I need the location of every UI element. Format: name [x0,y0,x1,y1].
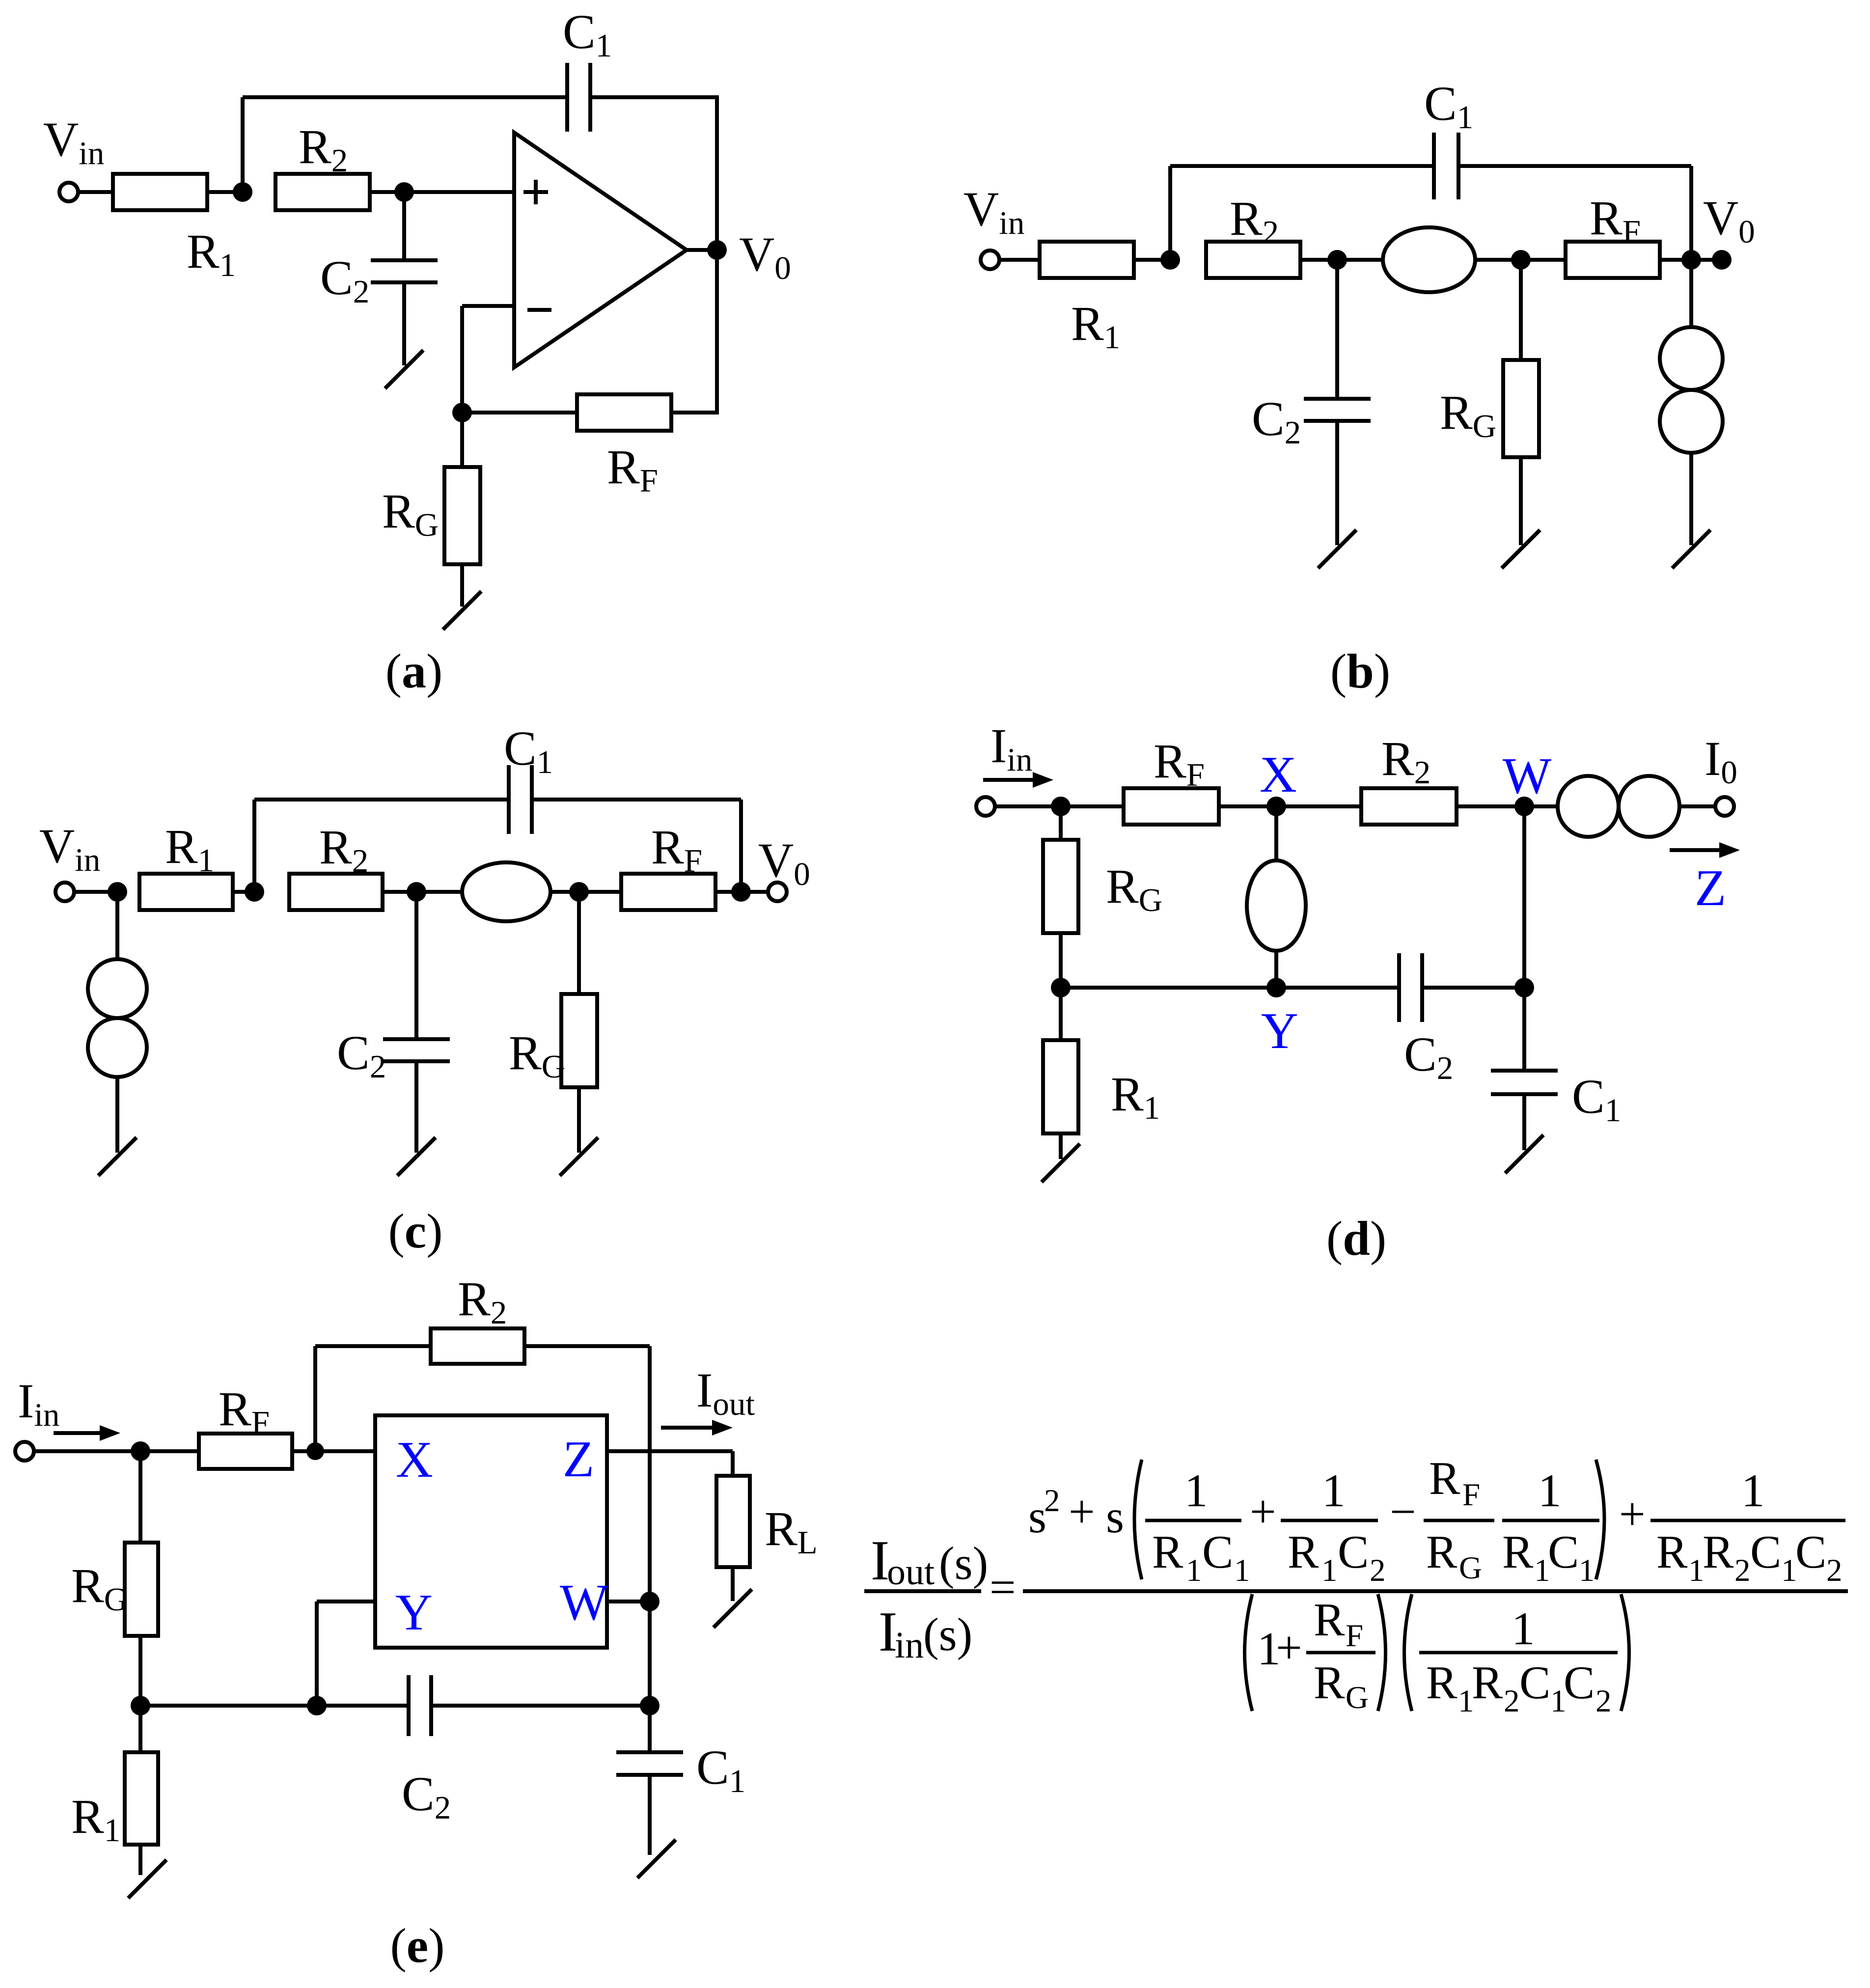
svg-text:R: R [1429,1452,1460,1504]
svg-text:R: R [1426,1526,1457,1578]
svg-text:+: + [1069,1486,1095,1538]
svg-text:1: 1 [1184,1464,1208,1517]
svg-text:1: 1 [1538,1464,1562,1517]
svg-text:(s): (s) [939,1537,988,1589]
svg-text:C: C [1548,1526,1579,1578]
svg-text:1: 1 [1322,1464,1346,1517]
svg-text:F: F [1462,1477,1480,1513]
svg-text:R: R [1656,1526,1688,1578]
svg-text:X: X [396,1431,433,1488]
svg-text:1: 1 [1512,1602,1535,1655]
svg-text:R: R [1703,1526,1734,1578]
svg-text:(s): (s) [923,1608,972,1660]
svg-text:R: R [1152,1526,1183,1578]
svg-text:Z: Z [563,1430,594,1488]
svg-text:R: R [1426,1657,1457,1709]
svg-text:(b): (b) [1330,644,1390,698]
svg-text:1: 1 [1234,1553,1250,1588]
svg-text:R: R [1502,1526,1534,1578]
svg-text:2: 2 [1734,1553,1751,1588]
svg-text:F: F [1346,1618,1363,1654]
svg-text:(e): (e) [390,1918,444,1973]
svg-text:G: G [1459,1550,1482,1586]
svg-text:R: R [1472,1657,1503,1709]
svg-text:+: + [1619,1488,1646,1540]
svg-text:Y: Y [1261,1002,1298,1059]
svg-text:1: 1 [1579,1553,1595,1588]
svg-text:C: C [1338,1526,1369,1578]
svg-text:(d): (d) [1326,1211,1386,1266]
svg-text:1: 1 [1321,1553,1338,1588]
svg-text:W: W [1503,747,1551,804]
svg-text:s: s [1106,1491,1124,1543]
svg-text:X: X [1260,745,1297,803]
svg-text:Y: Y [395,1583,433,1641]
svg-text:−: − [1390,1486,1416,1538]
svg-text:C: C [1519,1657,1550,1709]
svg-text:(c): (c) [388,1204,442,1258]
svg-text:2: 2 [1044,1483,1060,1519]
svg-text:+: + [1276,1622,1302,1674]
svg-text:2: 2 [1826,1553,1842,1588]
svg-text:(a): (a) [385,644,443,698]
svg-text:R: R [1288,1526,1319,1578]
svg-text:2: 2 [1595,1684,1612,1719]
svg-text:1: 1 [1741,1464,1765,1517]
svg-text:C: C [1795,1526,1826,1578]
svg-text:C: C [1750,1526,1781,1578]
svg-text:2: 2 [1504,1684,1520,1719]
svg-text:in: in [895,1625,924,1666]
svg-text:C: C [1202,1526,1233,1578]
svg-text:+: + [1250,1486,1276,1538]
svg-text:out: out [887,1551,935,1593]
svg-text:W: W [560,1574,608,1631]
svg-text:1: 1 [1186,1553,1202,1588]
svg-text:=: = [990,1561,1016,1613]
svg-text:R: R [1314,1657,1345,1709]
svg-text:Z: Z [1695,859,1726,916]
svg-text:1: 1 [1781,1553,1797,1588]
svg-text:2: 2 [1370,1553,1386,1588]
svg-text:G: G [1346,1680,1369,1715]
svg-text:1: 1 [1688,1553,1705,1588]
svg-text:R: R [1314,1594,1345,1646]
svg-text:C: C [1564,1657,1595,1709]
